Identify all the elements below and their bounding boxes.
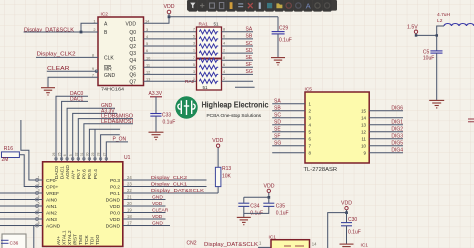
svg-text:Q6: Q6	[129, 72, 136, 78]
svg-text:Q5: Q5	[129, 65, 136, 71]
svg-text:C29: C29	[279, 25, 288, 31]
svg-text:3: 3	[146, 27, 148, 32]
svg-text:0.1uF: 0.1uF	[348, 230, 361, 236]
wire LEDA&MOSI	[84, 124, 133, 162]
svg-text:0.1uF: 0.1uF	[163, 119, 176, 125]
svg-text:IC2: IC2	[101, 12, 109, 18]
svg-text:C34: C34	[250, 203, 259, 209]
svg-text:CLK: CLK	[104, 56, 114, 62]
svg-text:AV+: AV+	[71, 170, 77, 179]
svg-text:P0.7: P0.7	[76, 169, 82, 179]
svg-text:SA: SA	[246, 27, 253, 33]
svg-text:2: 2	[223, 48, 225, 53]
svg-text:RA1: RA1	[199, 22, 209, 28]
top pin numbers U1	[52, 152, 106, 156]
resistor array RA2	[197, 59, 222, 90]
svg-text:15: 15	[361, 109, 366, 114]
svg-text:30: 30	[86, 152, 90, 156]
U1 right net labels	[151, 175, 205, 227]
U1 left pin numbers	[38, 176, 40, 226]
svg-text:GND: GND	[104, 73, 116, 79]
svg-text:AGND: AGND	[46, 224, 61, 230]
svg-text:DIG1: DIG1	[391, 120, 403, 126]
capacitor C34	[238, 203, 249, 206]
svg-text:Display_DAT&SCLK: Display_DAT&SCLK	[151, 188, 205, 194]
svg-text:SB: SB	[246, 34, 253, 40]
wire GND pin to ground	[48, 77, 98, 87]
svg-text:R13: R13	[222, 166, 231, 172]
svg-text:P0.5: P0.5	[87, 169, 93, 179]
svg-text:DGND: DGND	[106, 198, 121, 204]
wire Display_CLK2	[36, 56, 98, 58]
svg-text:VDD: VDD	[152, 214, 163, 220]
svg-text:3: 3	[38, 189, 40, 193]
svg-text:3: 3	[193, 41, 195, 46]
svg-text:CLEAR: CLEAR	[152, 207, 169, 213]
capacitor C36	[1, 240, 9, 243]
svg-text:P0.2: P0.2	[110, 185, 120, 191]
wire to CP0-	[21, 120, 43, 180]
svg-text:SA: SA	[274, 99, 281, 105]
svg-text:U1: U1	[124, 155, 131, 161]
svg-text:DAC1: DAC1	[59, 166, 65, 179]
svg-text:MR: MR	[104, 67, 112, 73]
svg-text:DIG3: DIG3	[391, 134, 403, 140]
svg-text:13: 13	[146, 76, 150, 81]
svg-text:XTAL1: XTAL1	[62, 230, 68, 245]
wire stub pin8	[101, 135, 120, 162]
svg-text:20: 20	[127, 201, 132, 206]
svg-text:C35: C35	[276, 203, 285, 209]
svg-text:C33: C33	[162, 113, 171, 119]
IC2 74HC164 body	[98, 17, 144, 86]
svg-text:TL-2728ASR: TL-2728ASR	[304, 167, 338, 173]
svg-text:C5: C5	[423, 49, 430, 55]
svg-text:AGND: AGND	[65, 165, 71, 180]
svg-text:XTAL2: XTAL2	[67, 230, 73, 245]
svg-text:2M: 2M	[2, 157, 9, 163]
svg-text:TMS: TMS	[78, 234, 84, 245]
wire DAC1	[62, 101, 88, 161]
U1 left pin circles	[36, 179, 39, 228]
wire VREF	[0, 192, 43, 194]
IC5 left wires	[272, 104, 305, 153]
svg-text:31: 31	[80, 152, 84, 156]
svg-text:51: 51	[203, 85, 209, 90]
capacitor C33	[150, 114, 161, 117]
wire DAC0	[56, 96, 88, 162]
svg-text:0.1uF: 0.1uF	[276, 211, 289, 217]
junction	[345, 211, 348, 214]
U1 right wires	[123, 180, 218, 226]
svg-text:18: 18	[127, 214, 132, 219]
svg-text:SE: SE	[246, 55, 253, 61]
svg-text:VDD: VDD	[164, 4, 175, 10]
svg-text:6: 6	[146, 48, 148, 53]
svg-text:VDD: VDD	[125, 21, 136, 27]
svg-text:SD: SD	[274, 120, 281, 126]
svg-text:VDD: VDD	[212, 138, 223, 144]
svg-text:Display_CLK2: Display_CLK2	[151, 175, 187, 181]
svg-text:27: 27	[102, 152, 106, 156]
svg-text:6: 6	[38, 208, 40, 212]
svg-text:SC: SC	[274, 113, 281, 119]
svg-text:1: 1	[193, 48, 195, 53]
svg-text:SC: SC	[246, 41, 253, 47]
svg-text:11: 11	[361, 137, 366, 142]
svg-text:8: 8	[223, 55, 225, 60]
svg-text:SF: SF	[246, 62, 252, 68]
svg-text:L2: L2	[437, 18, 443, 24]
svg-text:SF: SF	[274, 134, 280, 140]
svg-text:32: 32	[74, 152, 78, 156]
svg-text:74HC164: 74HC164	[101, 87, 124, 93]
svg-text:3: 3	[193, 69, 195, 74]
svg-text:7: 7	[193, 26, 195, 31]
ground below C29	[271, 58, 285, 65]
svg-text:Q4: Q4	[129, 58, 136, 64]
svg-text:2: 2	[38, 182, 40, 186]
svg-text:P0.6: P0.6	[82, 169, 88, 179]
svg-text:IC1: IC1	[361, 243, 369, 248]
svg-text:5: 5	[69, 154, 73, 156]
svg-text:Q1: Q1	[129, 37, 136, 43]
svg-text:51: 51	[214, 22, 220, 27]
svg-text:14: 14	[312, 242, 317, 247]
wire R16 to CP0+	[19, 155, 42, 187]
svg-text:GND: GND	[152, 194, 163, 200]
svg-text:2: 2	[93, 27, 95, 32]
svg-text:P0.0: P0.0	[110, 211, 120, 217]
svg-text:TCK: TCK	[84, 234, 90, 245]
svg-text:5: 5	[193, 62, 195, 67]
svg-text:SG: SG	[274, 141, 281, 147]
IC5 pin numbers	[309, 102, 367, 156]
wire to IC1	[328, 213, 347, 248]
wires Q0-Q7 to RA	[144, 32, 197, 82]
svg-text:1.5V: 1.5V	[407, 24, 418, 30]
svg-text:VDD: VDD	[264, 184, 275, 190]
net labels SA-SG at IC5	[274, 99, 281, 147]
svg-text:Display_DAT&SCLK: Display_DAT&SCLK	[204, 242, 259, 248]
svg-text:6: 6	[223, 62, 225, 67]
svg-text:DIG5: DIG5	[391, 141, 403, 147]
svg-text:SB: SB	[274, 106, 281, 112]
resistor array RA1	[197, 27, 222, 58]
wire stub below RA2	[235, 86, 255, 88]
ground below C33	[149, 132, 164, 139]
svg-text:6: 6	[63, 154, 67, 156]
svg-text:P0.4: P0.4	[93, 169, 99, 179]
svg-text:DAC0: DAC0	[54, 166, 60, 179]
U1 left pin names	[46, 178, 61, 230]
svg-text:7: 7	[38, 215, 40, 219]
wire VDD rail	[244, 197, 269, 203]
svg-text:AIN0: AIN0	[46, 198, 57, 204]
MR inversion bubble	[95, 70, 98, 73]
wire VDD to C29	[169, 16, 278, 18]
svg-text:PCBA One-stop Solutions: PCBA One-stop Solutions	[207, 113, 262, 119]
zigzag resistors in RA1/RA2	[199, 30, 218, 84]
capacitor C30	[346, 213, 348, 223]
svg-text:21: 21	[127, 195, 132, 200]
svg-text:AIN1: AIN1	[46, 204, 57, 210]
svg-text:7: 7	[193, 55, 195, 60]
junction	[268, 196, 271, 199]
svg-text:AIN3: AIN3	[46, 217, 57, 223]
svg-text:SG: SG	[246, 69, 253, 75]
svg-text:Q2: Q2	[129, 44, 136, 50]
svg-text:R16: R16	[4, 146, 13, 152]
svg-text:IC5: IC5	[305, 87, 313, 93]
MR overbar	[104, 65, 111, 67]
wire VDD pin14	[144, 17, 170, 24]
svg-text:12: 12	[146, 70, 150, 75]
svg-text:10uF: 10uF	[423, 56, 434, 62]
svg-text:5: 5	[38, 202, 40, 206]
wire into IC1 pin 1	[258, 246, 271, 248]
U1 right pin names	[106, 178, 121, 230]
ground symbol below IC2	[41, 88, 55, 95]
svg-text:17: 17	[127, 221, 132, 226]
wire AGND	[0, 225, 43, 227]
top pin decorations	[55, 158, 108, 160]
wire P_ON	[106, 142, 128, 162]
svg-text:9: 9	[92, 66, 94, 71]
wire GND	[67, 108, 115, 162]
svg-text:0.1uF: 0.1uF	[279, 37, 292, 43]
wire AIN2	[0, 212, 43, 214]
svg-text:VDD: VDD	[110, 217, 121, 223]
svg-text:Q3: Q3	[129, 51, 136, 57]
wire AIN3	[0, 218, 43, 220]
svg-text:13: 13	[361, 123, 366, 128]
IC5 right wires	[369, 111, 403, 153]
svg-text:C36: C36	[10, 240, 19, 246]
RA pin numbers	[193, 26, 226, 81]
svg-text:CN2: CN2	[187, 240, 197, 246]
svg-text:4.7uH: 4.7uH	[437, 12, 451, 18]
svg-text:24: 24	[127, 175, 132, 180]
junction	[80, 31, 83, 34]
ground below C30	[340, 244, 354, 247]
svg-text:VDD: VDD	[152, 201, 163, 207]
svg-text:DGND: DGND	[106, 224, 121, 230]
svg-text:23: 23	[127, 182, 132, 187]
svg-text:2: 2	[223, 76, 225, 81]
wire stub pin7	[89, 129, 120, 162]
svg-text:8: 8	[92, 53, 94, 58]
svg-text:SD: SD	[246, 48, 253, 54]
wire L2 to node	[437, 26, 444, 51]
pin numbers IC2	[92, 18, 151, 81]
wires RA right to SA-SG	[222, 32, 255, 88]
junction VDD node	[168, 15, 171, 18]
U1 right pin numbers	[127, 175, 132, 226]
right edge net fragment	[468, 118, 474, 120]
svg-text:11: 11	[146, 62, 150, 67]
svg-text:7: 7	[92, 72, 94, 77]
svg-text:Display_CLK2: Display_CLK2	[37, 52, 76, 58]
svg-text:10: 10	[361, 144, 366, 149]
capacitor C29	[277, 17, 279, 32]
IC5 TL-2728ASR body	[305, 92, 369, 163]
svg-text:SE: SE	[274, 127, 281, 133]
svg-text:14: 14	[361, 116, 366, 121]
white box bottom-left	[2, 234, 26, 248]
svg-text:TDO: TDO	[95, 234, 101, 245]
svg-text:P0.1: P0.1	[110, 191, 120, 197]
wire AIN0	[0, 199, 43, 201]
svg-text:P0.3: P0.3	[110, 178, 120, 184]
net labels SA-SG	[246, 27, 253, 76]
svg-text:VREF: VREF	[46, 191, 59, 197]
svg-text:DIG4: DIG4	[391, 148, 403, 154]
svg-text:1: 1	[93, 18, 95, 23]
svg-text:CP0+: CP0+	[46, 185, 59, 191]
svg-text:28: 28	[97, 152, 101, 156]
capacitor C35	[263, 203, 274, 206]
ground below C5	[429, 100, 444, 108]
wire CLEAR	[47, 70, 98, 72]
svg-text:TDI: TDI	[89, 237, 95, 245]
svg-text:AV+: AV+	[56, 236, 62, 245]
svg-text:GND: GND	[152, 220, 163, 226]
svg-text:DIG2: DIG2	[391, 127, 403, 133]
svg-text:5: 5	[193, 34, 195, 39]
svg-text:/RST: /RST	[73, 234, 79, 245]
svg-text:19: 19	[127, 208, 132, 213]
svg-text:29: 29	[91, 152, 95, 156]
svg-text:DIG6: DIG6	[391, 106, 403, 112]
wire to ground rail	[244, 206, 269, 217]
svg-text:25: 25	[58, 152, 62, 156]
svg-text:10K: 10K	[222, 174, 232, 180]
U1 bottom rotated pin names	[56, 230, 101, 245]
wire LEDB&MISO	[78, 119, 133, 162]
ground below C34	[237, 217, 251, 224]
U1 top rotated pin names	[54, 165, 99, 180]
svg-text:26: 26	[52, 152, 56, 156]
svg-text:Display_CLK1: Display_CLK1	[151, 181, 187, 187]
svg-text:1: 1	[38, 176, 40, 180]
wire Display_DAT&SCLK	[24, 23, 98, 32]
U1 MCU body	[43, 162, 123, 247]
svg-text:Highleap Electronic: Highleap Electronic	[202, 99, 269, 109]
svg-text:12: 12	[361, 130, 366, 135]
wire 1.5V to node	[416, 33, 437, 35]
svg-text:22: 22	[127, 188, 132, 193]
svg-text:VDD: VDD	[341, 201, 352, 207]
svg-text:5: 5	[146, 41, 148, 46]
wire AIN1	[0, 205, 43, 207]
svg-text:Q0: Q0	[129, 30, 136, 36]
pin names IC2	[104, 21, 136, 85]
wire A3.3V	[73, 113, 117, 161]
svg-text:AIN2: AIN2	[46, 211, 57, 217]
net labels DIG	[391, 106, 403, 154]
svg-text:4: 4	[38, 195, 40, 199]
svg-text:8: 8	[38, 221, 40, 225]
wire down from AGND	[33, 226, 35, 248]
svg-text:8: 8	[223, 26, 225, 31]
svg-text:VDD: VDD	[110, 204, 121, 210]
svg-text:Q7: Q7	[129, 79, 136, 85]
svg-text:1: 1	[193, 76, 195, 81]
svg-text:6: 6	[223, 34, 225, 39]
